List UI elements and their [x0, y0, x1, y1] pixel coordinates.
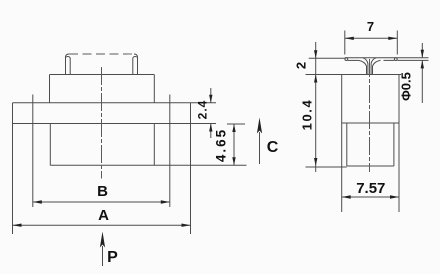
svg-text:4.65: 4.65 — [214, 128, 229, 162]
svg-text:2.4: 2.4 — [196, 100, 210, 120]
svg-text:10.4: 10.4 — [300, 99, 315, 131]
svg-text:7: 7 — [367, 19, 374, 34]
svg-text:7.57: 7.57 — [356, 180, 385, 197]
svg-text:C: C — [267, 139, 279, 156]
svg-text:Φ0.5: Φ0.5 — [399, 72, 414, 101]
svg-text:B: B — [97, 183, 108, 200]
svg-text:2: 2 — [294, 62, 309, 69]
svg-text:A: A — [98, 207, 109, 224]
svg-text:P: P — [107, 249, 118, 266]
